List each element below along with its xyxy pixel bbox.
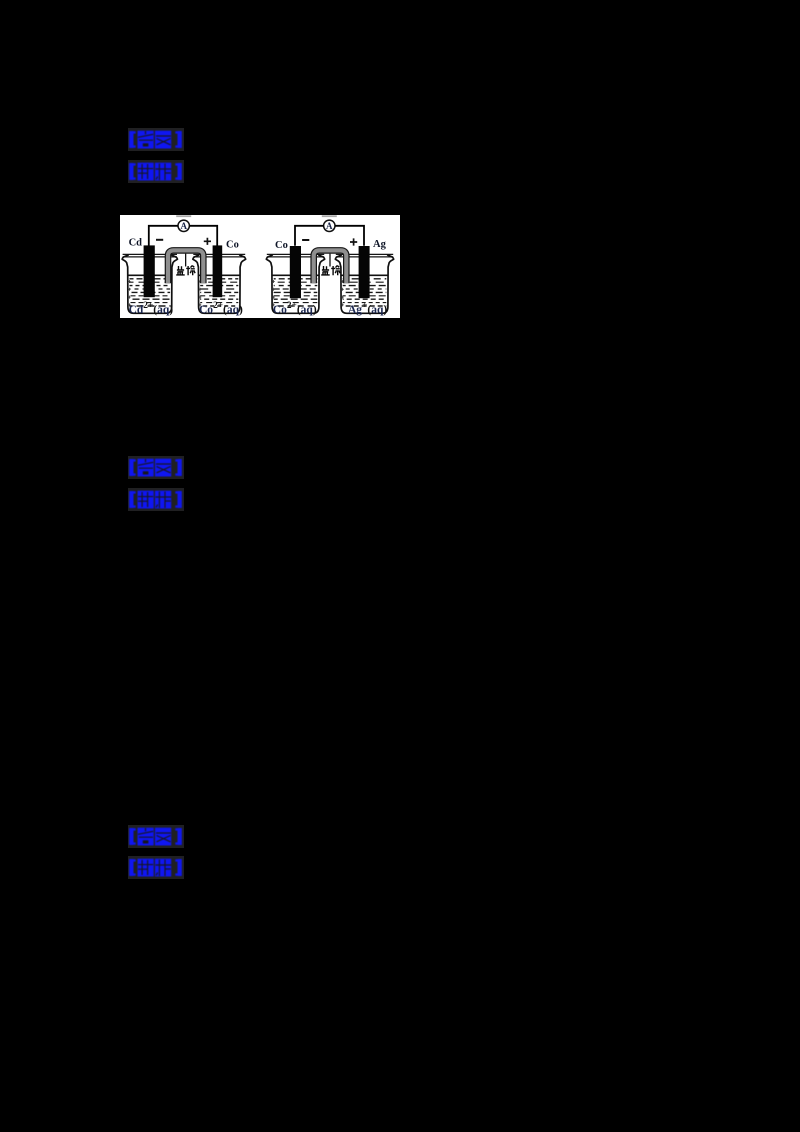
wire left — [295, 226, 324, 246]
electrode Co anode B — [290, 246, 301, 298]
salt bridge B — [314, 250, 347, 283]
wire top stub A1 — [176, 215, 191, 217]
wire right — [189, 226, 217, 246]
beaker A-left rim — [123, 254, 177, 257]
svg-text:A: A — [180, 221, 187, 231]
svg-text:Ag: Ag — [373, 239, 387, 250]
answer tag 2 — [128, 456, 184, 479]
salt bridge caption B — [321, 266, 340, 276]
glyph defs — [0, 0, 1, 1]
beaker A-right body — [193, 255, 246, 313]
beaker B-left body — [266, 255, 324, 313]
solution hatching B-left — [274, 279, 318, 306]
liquid surface B-left — [272, 274, 319, 276]
electrode Ag cathode — [359, 246, 370, 298]
wire right — [335, 226, 364, 246]
salt bridge caption A — [176, 266, 195, 276]
wire left — [149, 226, 178, 246]
wire top stub A2 — [322, 215, 337, 217]
electrochemistry diagram (two galvanic cells) — [120, 215, 400, 318]
analysis tag 3 — [128, 856, 184, 879]
ammeter A1 — [178, 220, 189, 231]
beaker A-right rim — [193, 254, 245, 257]
svg-text:Cd: Cd — [129, 238, 143, 249]
solution hatching A-left — [130, 279, 171, 306]
analysis tag 2 — [128, 488, 184, 511]
liquid surface A-left — [128, 274, 172, 276]
beaker B-right rim — [336, 254, 393, 257]
beaker B-left rim — [267, 254, 324, 257]
svg-text:A: A — [326, 221, 333, 231]
minus sign B — [302, 239, 309, 241]
plus sign A — [204, 238, 211, 245]
analysis tag 1 — [128, 160, 184, 183]
liquid surface B-right — [341, 274, 388, 276]
ammeter A2 — [324, 220, 335, 231]
svg-text:Co: Co — [275, 240, 288, 251]
svg-text:Ag+(aq): Ag+(aq) — [348, 301, 387, 316]
answer tag 3 — [128, 825, 184, 848]
salt bridge stem A — [185, 254, 187, 267]
solution hatching B-right — [343, 279, 387, 306]
beaker B-right body — [335, 255, 393, 313]
answer tag 1 (blue highlighted label) — [128, 128, 184, 151]
solution hatching A-right — [200, 279, 238, 306]
salt bridge A — [168, 250, 203, 283]
svg-text:Co: Co — [226, 240, 239, 251]
salt bridge stem B — [329, 254, 331, 267]
liquid surface A-right — [199, 274, 240, 276]
electrode Co cathode A — [213, 245, 223, 297]
electrode Cd anode — [144, 245, 155, 297]
minus sign A — [156, 239, 163, 241]
plus sign B — [350, 238, 357, 245]
beaker A-left body — [122, 255, 177, 313]
